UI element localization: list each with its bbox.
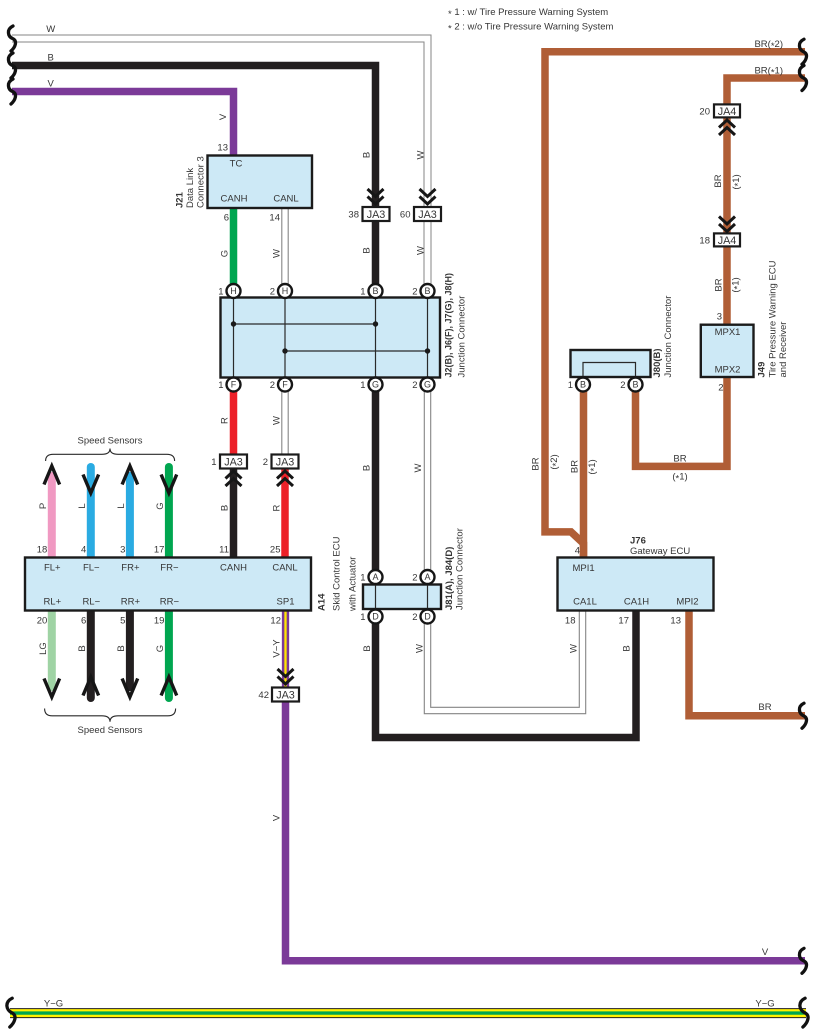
svg-text:A: A [372, 572, 378, 582]
svg-text:RL−: RL− [82, 597, 100, 608]
svg-text:FR−: FR− [160, 563, 179, 574]
svg-text:18: 18 [565, 616, 576, 627]
svg-text:B: B [372, 286, 378, 296]
arrowhead down FL- [83, 475, 99, 494]
arrowhead down RL+ [44, 679, 60, 698]
arrow down above JA3 60 [420, 189, 436, 204]
svg-text:B: B [362, 645, 373, 651]
svg-text:13: 13 [217, 143, 228, 154]
wire B top-left to JA3 38 to pin 1(B) [12, 66, 376, 292]
svg-text:L: L [77, 503, 88, 508]
wire LG RL+ pin 20 [48, 611, 56, 692]
svg-text:FL−: FL− [83, 563, 100, 574]
connector JA3 60 [400, 207, 441, 221]
svg-text:V: V [48, 79, 55, 90]
arrow up below JA4 20 [719, 120, 735, 135]
connector JA4 18 [699, 233, 740, 247]
svg-text:B: B [362, 247, 373, 253]
svg-text:B: B [632, 380, 638, 390]
svg-text:2: 2 [412, 380, 417, 391]
svg-text:RR+: RR+ [121, 597, 141, 608]
svg-text:Y−G: Y−G [44, 999, 63, 1010]
pin circle 1(F) [218, 378, 240, 392]
svg-text:J81(A), J84(D): J81(A), J84(D) [444, 547, 455, 610]
svg-text:J49: J49 [757, 362, 768, 378]
svg-text:2: 2 [270, 380, 275, 391]
svg-text:F: F [282, 380, 288, 390]
arrow down above JA3 42 [278, 669, 294, 684]
svg-text:W: W [569, 644, 580, 653]
svg-text:CANL: CANL [273, 194, 298, 205]
wire BR(*2) top-right to J76 MPI1 pin 4 [545, 52, 805, 558]
svg-text:W: W [416, 150, 427, 159]
block J76 Gateway ECU [558, 558, 714, 611]
svg-text:60: 60 [400, 210, 411, 221]
svg-text:Skid Control ECU: Skid Control ECU [332, 536, 343, 611]
svg-text:BR: BR [714, 278, 725, 291]
svg-text:13: 13 [670, 616, 681, 627]
wire B RL- pin 6 [87, 611, 95, 699]
svg-text:G: G [155, 645, 166, 652]
svg-text:17: 17 [618, 616, 629, 627]
connector JA3 2 [263, 455, 299, 469]
wire W top-left to JA3 60 to pin 2(B) [11, 39, 428, 292]
arrow down above JA4 18 [719, 217, 735, 232]
svg-text:R: R [272, 504, 283, 511]
svg-text:2: 2 [620, 380, 625, 391]
svg-text:B: B [362, 152, 373, 158]
wire W J21 CANL to 2(H) [281, 208, 289, 291]
pin circle 1(B) J80 [568, 378, 590, 392]
svg-text:B: B [220, 505, 231, 511]
svg-text:B: B [362, 465, 373, 471]
svg-text:20: 20 [699, 106, 710, 117]
wire L FR+ pin 3 [126, 472, 134, 558]
svg-text:Connector 3: Connector 3 [196, 156, 207, 208]
svg-text:B: B [48, 53, 54, 64]
svg-text:J2(B), J6(F), J7(G), J8(H): J2(B), J6(F), J7(G), J8(H) [444, 273, 454, 378]
svg-text:2: 2 [412, 573, 417, 584]
wire BR MPX2 pin 2 to J80 2(B) [636, 377, 728, 466]
svg-text:25: 25 [270, 545, 281, 556]
svg-text:G: G [220, 250, 231, 257]
svg-text:FR+: FR+ [121, 563, 140, 574]
arrowhead up RR- [161, 677, 177, 696]
svg-text:Tire Pressure Warning ECU: Tire Pressure Warning ECU [768, 260, 779, 377]
svg-text:RR−: RR− [160, 597, 180, 608]
block J81(A),J84(D) junction connector [363, 585, 441, 610]
svg-text:2: 2 [412, 612, 417, 623]
svg-text:FL+: FL+ [44, 563, 61, 574]
svg-text:TC: TC [230, 159, 243, 170]
pin circle 2(H) [270, 284, 292, 298]
svg-text:Gateway ECU: Gateway ECU [630, 546, 690, 557]
svg-text:H: H [282, 286, 289, 296]
wire V JA3 42 to bottom right edge [286, 701, 806, 961]
svg-text:W: W [46, 24, 55, 35]
svg-text:MPI1: MPI1 [573, 563, 595, 574]
svg-text:W: W [272, 416, 283, 425]
wire V top-left to J21 pin 13 [12, 92, 234, 157]
wire B JA3 1 to A14 CANH pin 11 [230, 467, 238, 558]
svg-text:19: 19 [154, 616, 165, 627]
svg-text:20: 20 [37, 616, 48, 627]
svg-text:RL+: RL+ [43, 597, 61, 608]
svg-text:JA4: JA4 [718, 235, 737, 247]
arrowhead down FR- [161, 475, 177, 494]
wire L FL- pin 4 [87, 467, 95, 558]
svg-text:6: 6 [81, 616, 86, 627]
svg-text:J21: J21 [175, 191, 186, 208]
block A14 Skid Control ECU with Actuator [25, 558, 311, 611]
svg-text:W: W [415, 644, 426, 653]
svg-text:SP1: SP1 [277, 597, 295, 608]
svg-text:D: D [424, 612, 431, 622]
svg-text:G: G [372, 380, 379, 390]
squiggle V right bottom [799, 948, 806, 973]
pin circle 2(A) [412, 570, 434, 584]
svg-text:Speed Sensors: Speed Sensors [78, 725, 143, 736]
svg-text:1: 1 [218, 380, 223, 391]
pin circle 2(B) J80 [620, 378, 642, 392]
arrowhead up RL- [83, 677, 99, 696]
svg-text:with Actuator: with Actuator [348, 557, 359, 612]
connector JA3 42 [258, 688, 299, 702]
svg-text:W: W [272, 249, 283, 258]
svg-text:12: 12 [270, 616, 281, 627]
wire Y-G bottom [10, 1008, 806, 1018]
squiggle W left [8, 26, 15, 51]
brace speed sensors top [46, 449, 175, 462]
wire B RR+ pin 5 [126, 611, 134, 692]
wire R 1(F) to JA3 1 [230, 385, 238, 457]
arrow down above JA3 38 [368, 189, 384, 204]
block J80(B) junction connector [571, 350, 651, 377]
svg-text:CANL: CANL [272, 563, 297, 574]
wire BR J80 1(B) to J76 MPI1 pin 4 [580, 385, 588, 558]
squiggle Y-G left [7, 998, 15, 1027]
svg-text:2: 2 [412, 287, 417, 298]
arrow up below JA3 1 [226, 471, 242, 486]
arrowhead down RR+ [122, 679, 138, 698]
svg-text:F: F [231, 380, 237, 390]
svg-text:B: B [77, 645, 88, 651]
svg-text:B: B [580, 380, 586, 390]
svg-text:H: H [230, 286, 237, 296]
svg-text:Junction Connector: Junction Connector [455, 528, 466, 610]
svg-text:BR: BR [531, 457, 542, 470]
svg-text:B: B [116, 645, 127, 651]
svg-text:JA3: JA3 [276, 457, 295, 469]
wire R JA3 2 to A14 CANL pin 25 [281, 467, 289, 558]
svg-text:V: V [762, 947, 769, 958]
block junction connector J2(B),J6(F),J7(G),J8(H) [221, 298, 441, 378]
block J21 Data Link Connector 3 [208, 156, 313, 209]
pin circle 2(F) [270, 378, 292, 392]
svg-text:MPX2: MPX2 [715, 365, 741, 376]
svg-text:BR: BR [570, 460, 581, 473]
svg-text:JA3: JA3 [367, 209, 386, 221]
pin circle 2(D) [412, 610, 434, 624]
svg-text:G: G [424, 380, 431, 390]
connector JA3 1 [211, 455, 247, 469]
svg-text:1: 1 [360, 287, 365, 298]
wire P FL+ pin 18 [48, 472, 56, 558]
svg-text:4: 4 [575, 546, 580, 557]
svg-text:1: 1 [360, 612, 365, 623]
svg-text:JA3: JA3 [418, 209, 437, 221]
squiggle Y-G right [800, 998, 808, 1027]
pin circle 2(G) [412, 378, 434, 392]
wire G J21 CANH to 1(H) [230, 208, 238, 291]
squiggle B left [8, 53, 15, 78]
wire BR J76 MPI2 pin 13 to right edge [689, 611, 805, 716]
svg-text:JA4: JA4 [718, 106, 737, 118]
svg-text:Junction Connector: Junction Connector [457, 296, 468, 378]
wire BR(*1) top-right through JA4 20 and JA4 18 to MPX1 pin 3 [727, 78, 805, 325]
svg-text:18: 18 [37, 545, 48, 556]
svg-text:B: B [622, 645, 633, 651]
svg-text:BR: BR [673, 454, 686, 465]
svg-text:2: 2 [718, 383, 723, 394]
svg-text:MPI2: MPI2 [676, 597, 698, 608]
svg-text:18: 18 [699, 235, 710, 246]
svg-text:CANH: CANH [220, 563, 247, 574]
svg-text:Data Link: Data Link [185, 168, 196, 208]
svg-text:L: L [116, 503, 127, 508]
svg-text:V: V [272, 814, 283, 821]
svg-text:5: 5 [120, 616, 125, 627]
svg-text:CANH: CANH [221, 194, 248, 205]
svg-text:BR: BR [713, 174, 724, 187]
svg-text:R: R [220, 417, 231, 424]
svg-text:LG: LG [38, 642, 49, 655]
wire G FR- pin 17 [165, 467, 173, 558]
pin circle 1(D) [360, 610, 382, 624]
svg-text:and Receiver: and Receiver [778, 322, 789, 378]
svg-text:3: 3 [717, 312, 722, 323]
squiggle BR right mid [799, 703, 806, 728]
svg-text:1: 1 [568, 380, 573, 391]
wire B 1(G) through J81 1(A)/1(D) then to J76 CA1H pin 17 [376, 385, 637, 738]
svg-text:1: 1 [360, 380, 365, 391]
svg-text:A: A [424, 572, 430, 582]
svg-text:B: B [424, 286, 430, 296]
svg-text:2: 2 [270, 287, 275, 298]
svg-text:1: 1 [211, 457, 216, 468]
squiggle V left [8, 79, 15, 104]
svg-text:V: V [218, 113, 229, 120]
svg-text:JA3: JA3 [224, 457, 243, 469]
svg-text:JA3: JA3 [276, 690, 295, 702]
svg-text:2: 2 [263, 457, 268, 468]
pin circle 1(B) [360, 284, 382, 298]
block J49 Tire Pressure Warning ECU (MPX) [701, 325, 754, 377]
svg-text:Speed Sensors: Speed Sensors [78, 436, 143, 447]
svg-text:BR: BR [758, 702, 771, 713]
svg-text:11: 11 [219, 545, 229, 556]
svg-text:42: 42 [258, 690, 269, 701]
svg-text:4: 4 [81, 545, 86, 556]
squiggle BR(*2) right [799, 39, 806, 64]
svg-text:14: 14 [269, 213, 280, 224]
svg-text:3: 3 [120, 545, 125, 556]
svg-text:P: P [38, 503, 49, 509]
svg-text:MPX1: MPX1 [715, 327, 741, 338]
svg-text:38: 38 [348, 210, 359, 221]
pin circle 1(G) [360, 378, 382, 392]
pin circle 1(H) [218, 284, 240, 298]
svg-text:17: 17 [154, 545, 165, 556]
svg-text:CA1L: CA1L [573, 597, 597, 608]
svg-text:6: 6 [224, 213, 229, 224]
svg-text:W: W [416, 246, 427, 255]
svg-text:J76: J76 [630, 536, 646, 547]
svg-text:D: D [372, 612, 379, 622]
wire W 2(F) to JA3 2 [281, 385, 289, 457]
svg-text:G: G [155, 502, 166, 509]
svg-text:Y−G: Y−G [755, 999, 774, 1010]
svg-text:J80(B): J80(B) [652, 348, 663, 377]
pin circle 1(A) [360, 570, 382, 584]
svg-text:1: 1 [218, 287, 223, 298]
svg-text:A14: A14 [317, 593, 328, 611]
svg-text:V−Y: V−Y [272, 639, 283, 658]
wire W 2(G) through J81 2(A)/2(D) then to J76 CA1L pin 18 [428, 385, 583, 711]
svg-text:1: 1 [360, 573, 365, 584]
arrow up below JA3 2 [277, 471, 293, 486]
connector JA3 38 [348, 207, 389, 221]
pin circle 2(B) [412, 284, 434, 298]
svg-text:CA1H: CA1H [624, 597, 649, 608]
svg-text:W: W [413, 463, 424, 472]
brace speed sensors bottom [45, 709, 176, 722]
connector JA4 20 [699, 104, 740, 118]
squiggle BR(*1) right [799, 66, 806, 91]
wire G RR- pin 19 [165, 611, 173, 699]
arrowhead up FL+ [44, 466, 60, 485]
wire V-Y A14 SP1 pin 12 to JA3 42 [282, 611, 289, 689]
arrowhead up FR+ [122, 466, 138, 485]
svg-text:Junction Connector: Junction Connector [663, 296, 674, 378]
